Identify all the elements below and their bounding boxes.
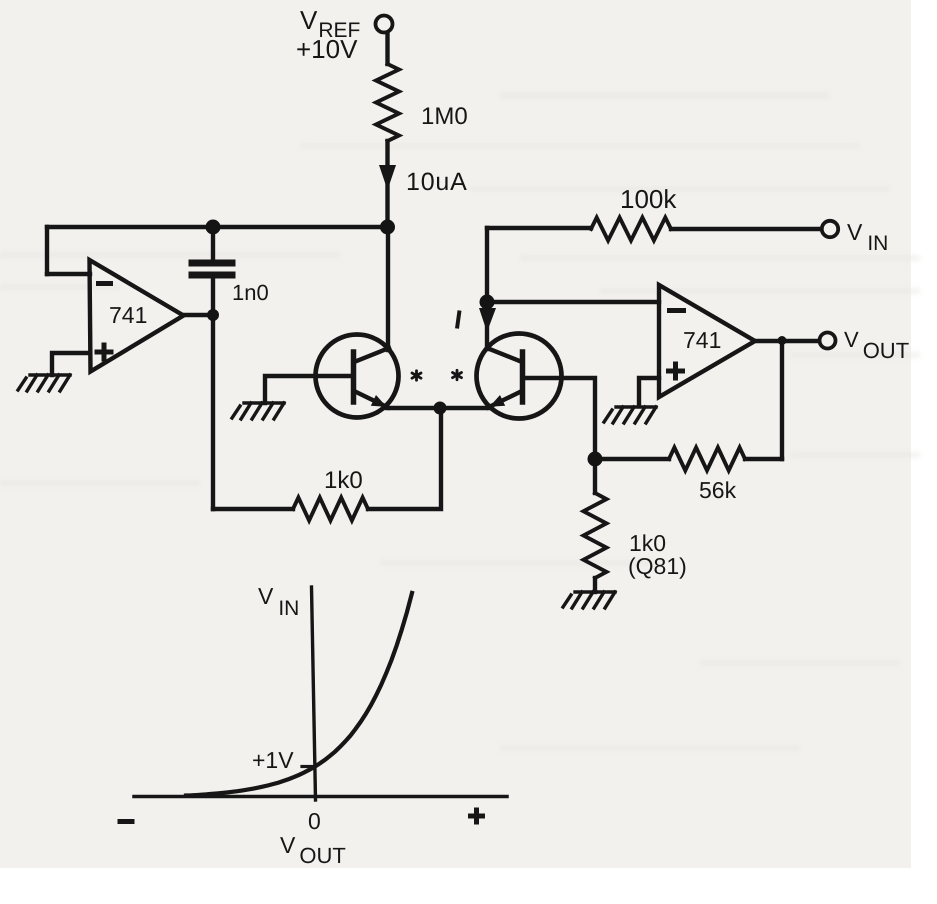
wire cap to output node — [211, 278, 215, 315]
ground R5 — [563, 592, 615, 608]
wire 100k to VIN — [671, 227, 820, 231]
graph vertical axis — [312, 587, 316, 800]
ground Q1 base — [232, 403, 284, 419]
wire rail to cap — [211, 227, 215, 260]
wire 56k left to node — [595, 457, 669, 461]
wire 1k0 to emitter rail — [368, 408, 441, 509]
label plus U2 — [666, 362, 685, 381]
op-amp U1 — [90, 260, 184, 372]
wire top-left rail — [47, 225, 388, 229]
svg-text:10uA: 10uA — [406, 168, 468, 196]
ground U2 noninverting — [604, 407, 656, 423]
Q1 emitter — [354, 391, 388, 408]
transistor Q2 base bar — [520, 352, 526, 402]
label I current — [457, 311, 460, 329]
capacitor C1 plates — [192, 260, 232, 267]
wire noninverting input U1 — [52, 353, 90, 375]
wire resistor to rail — [385, 141, 389, 227]
junction dot rail-VREF — [380, 220, 395, 235]
label plus U1 — [95, 343, 114, 362]
wire U1 output — [184, 313, 213, 317]
junction dot emitters — [434, 402, 447, 415]
graph horizontal axis — [134, 795, 507, 799]
transistor Q1 body — [316, 335, 399, 418]
wire Q2 collector vertical — [485, 228, 489, 349]
svg-text:56k: 56k — [699, 477, 737, 503]
graph tick +1V — [302, 765, 314, 768]
junction dot 56k-1k0 node — [588, 452, 603, 467]
resistor R5 1k0 Q81 — [584, 493, 607, 578]
junction dot rail-cap — [206, 220, 221, 235]
ground U1 noninverting — [18, 375, 70, 391]
wire VREF to resistor — [385, 33, 389, 64]
wire Q1 base — [265, 376, 350, 403]
resistor R2 1k0 — [293, 498, 368, 521]
svg-text:1k0: 1k0 — [324, 467, 363, 494]
svg-text:+1V: +1V — [252, 747, 294, 773]
label minus U2 — [667, 308, 686, 313]
Q2 emitter arrow — [490, 395, 506, 407]
terminal VIN — [822, 221, 838, 237]
Q1 collector — [354, 348, 389, 362]
wire to inverting input U1 — [47, 272, 90, 276]
wire output down to 1k0 — [211, 315, 215, 509]
label asterisk 1 — [412, 371, 421, 380]
wire feedback left vertical — [45, 227, 49, 274]
graph exponential curve — [186, 593, 412, 796]
wire 56k right — [745, 457, 782, 461]
wire Q1 collector vertical — [386, 227, 390, 350]
Q2 collector — [487, 348, 522, 362]
svg-text:+10V: +10V — [296, 34, 358, 64]
svg-text:1n0: 1n0 — [232, 280, 269, 305]
resistor R1 1M0 — [376, 64, 399, 141]
svg-text:1M0: 1M0 — [421, 103, 468, 130]
resistor R4 56k — [669, 448, 745, 471]
svg-text:741: 741 — [683, 327, 721, 353]
wire 1k0 to ground — [593, 578, 597, 592]
label minus axis — [118, 819, 135, 824]
label plus axis — [468, 808, 485, 825]
Q2 emitter — [488, 391, 522, 408]
Q1 emitter arrow — [371, 395, 387, 407]
wire node to U2 inverting input — [487, 300, 659, 304]
junction dot U1 output — [207, 309, 219, 321]
transistor Q2 body — [477, 334, 562, 419]
wire U2 noninverting input — [639, 378, 659, 406]
svg-text:(Q81): (Q81) — [628, 553, 687, 579]
op-amp U2 — [659, 285, 755, 397]
svg-text:0: 0 — [308, 808, 321, 834]
wire node to 1k0 Q81 — [593, 459, 597, 493]
transistor Q1 base bar — [351, 352, 357, 402]
junction dot Q2 collector node — [480, 295, 495, 310]
label asterisk 2 — [453, 370, 462, 379]
wire output down — [780, 341, 784, 459]
svg-text:100k: 100k — [620, 184, 677, 214]
wire U2 output — [755, 339, 819, 343]
arrow 10uA current — [379, 165, 396, 190]
junction dot U2 output — [778, 336, 787, 345]
terminal VOUT — [820, 333, 836, 349]
wire Q2 base — [526, 378, 595, 459]
wire emitter rail — [387, 406, 491, 410]
svg-text:741: 741 — [109, 302, 147, 328]
wire Q2 collector top to 100k — [487, 226, 591, 230]
wire to 1k0 resistor — [213, 507, 293, 511]
arrow I current — [479, 308, 496, 332]
resistor R3 100k — [591, 218, 671, 241]
label minus U1 — [96, 281, 113, 286]
terminal VREF — [376, 16, 393, 33]
